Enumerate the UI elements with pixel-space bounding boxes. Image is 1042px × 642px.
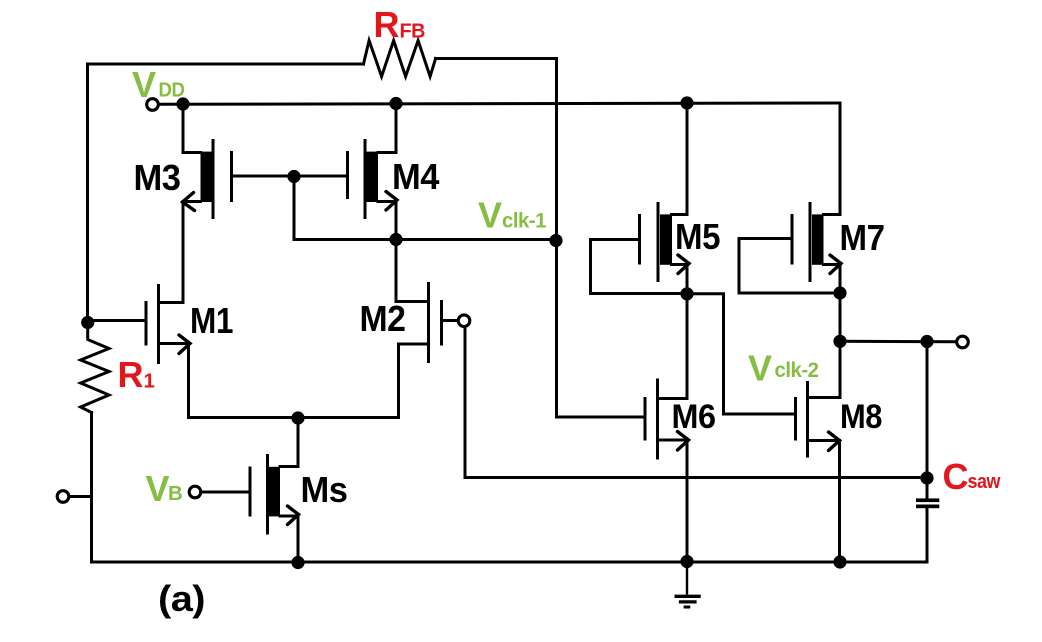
wire: ground rail (298, 561, 927, 564)
wire: R1 down to ground rail (92, 413, 299, 563)
wire: output node to terminal (840, 340, 957, 343)
svg-text:M4: M4 (392, 156, 439, 197)
junction M5 source/M6 drain (680, 287, 693, 300)
junction Vclk-1/M2 drain (389, 233, 402, 246)
junction ground rail/M6 (680, 555, 693, 568)
junction output/M8 drain (833, 335, 846, 348)
wire: M5 drain from VDD (672, 103, 688, 215)
wire: M8 drain up to output node (808, 341, 841, 397)
wire: RFB to Vclk-1 node (436, 59, 557, 240)
svg-text:FB: FB (400, 19, 426, 42)
transistor M8 (796, 381, 841, 458)
svg-text:M5: M5 (675, 216, 720, 257)
transistor M6 (645, 379, 689, 460)
label Vclk-2 (748, 348, 819, 389)
svg-text:C: C (943, 456, 969, 497)
label Csaw (943, 456, 1001, 497)
wire: M5 gate loop to source node (591, 240, 688, 294)
junction VDD-M5 (680, 96, 693, 109)
wire: M2 drain from Vclk-1 (395, 240, 398, 302)
svg-text:R: R (374, 4, 400, 45)
svg-text:R: R (118, 354, 144, 395)
junction ground rail/Ms (291, 556, 304, 569)
resistor RFB (364, 41, 436, 77)
wire: Csaw node down to capacitor (926, 342, 929, 499)
junction Csaw top node (920, 471, 933, 484)
wire: M1 source down to tail (187, 344, 190, 418)
transistor M3 (183, 104, 232, 302)
label R1 (118, 354, 155, 395)
wire: differential pair tail rail (189, 416, 399, 419)
wire: capacitor bottom to ground rail (926, 508, 929, 562)
svg-text:1: 1 (144, 370, 155, 393)
svg-text:M1: M1 (190, 300, 233, 341)
terminal VDD (147, 99, 159, 111)
junction M7 source (833, 286, 846, 299)
wire: left feedback loop (M1 gate node up and across to RFB) (88, 64, 364, 321)
transistor Ms (250, 454, 299, 562)
wire: mirror gate node down to Vclk-1 rail (293, 177, 296, 240)
wire: VDD rail (159, 103, 840, 104)
svg-text:V: V (146, 468, 170, 509)
svg-text:B: B (168, 482, 182, 505)
svg-text:M8: M8 (840, 398, 882, 436)
wire: M6 drain up to node (658, 294, 688, 399)
terminal left input (57, 491, 69, 503)
wire: M7 gate loop to source node (739, 239, 840, 294)
svg-text:M2: M2 (360, 298, 406, 339)
svg-text:saw: saw (968, 470, 1001, 493)
label Vclk-1 (478, 195, 547, 236)
svg-text:M3: M3 (134, 157, 181, 198)
wire: M7 drain from VDD rail corner (824, 103, 841, 215)
junction Vclk-1/RFB (549, 234, 562, 247)
terminal M2 gate bubble (458, 315, 470, 327)
wire: Vclk-1 rail (294, 238, 557, 241)
svg-text:(a): (a) (158, 578, 205, 619)
junction VDD-M4 (389, 97, 402, 110)
svg-text:Ms: Ms (301, 469, 348, 510)
junction M1 gate/feedback (81, 316, 94, 329)
capacitor Csaw (916, 498, 939, 508)
wire: M2 gate sense line to Csaw (465, 327, 927, 478)
transistor M7 (792, 202, 841, 293)
svg-text:M6: M6 (672, 398, 716, 436)
wire: M3 gate to M4 gate (232, 175, 347, 178)
junction VDD-M3 (176, 97, 189, 110)
svg-text:V: V (478, 195, 502, 236)
terminal output (957, 336, 969, 348)
wire: M5/M6 node to M8 gate (687, 294, 796, 414)
svg-text:M7: M7 (840, 217, 885, 258)
label RFB (374, 4, 426, 45)
wire: M2 gate lead (442, 319, 458, 322)
resistor R1 (81, 323, 109, 413)
junction output/Csaw (920, 335, 933, 348)
wire: left terminal stub (69, 495, 92, 498)
junction mirror gates (287, 170, 300, 183)
transistor M4 (348, 104, 398, 240)
wire: M1 gate lead from left rail (88, 319, 147, 322)
transistor M2 (396, 282, 442, 363)
wire: VB to Ms gate (201, 491, 250, 494)
junction tail/Ms drain (291, 411, 304, 424)
terminal VB (189, 486, 201, 498)
wire: M7 source node to output node (839, 293, 842, 341)
wire: M8 source to ground rail (838, 441, 841, 563)
wire: M6 source to ground rail (686, 440, 689, 562)
transistor M5 (640, 202, 690, 294)
transistor M1 (146, 284, 190, 364)
svg-text:V: V (748, 348, 772, 389)
label VDD (132, 64, 185, 105)
wire: Ms drain from tail (280, 418, 298, 467)
svg-text:clk-1: clk-1 (502, 209, 547, 233)
ground (675, 562, 701, 607)
junction ground rail/M8 (833, 555, 846, 568)
label VB (146, 468, 183, 509)
wire: M2 source down to tail (397, 344, 400, 418)
svg-text:clk-2: clk-2 (775, 358, 820, 382)
wire: Vclk-1 to M6 gate (557, 240, 646, 418)
